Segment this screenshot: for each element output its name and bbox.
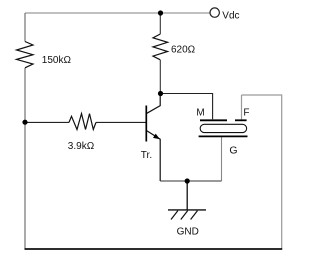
svg-text:Vdc: Vdc — [222, 11, 239, 22]
svg-text:M: M — [196, 107, 204, 118]
svg-text:F: F — [243, 107, 249, 118]
svg-text:Tr.: Tr. — [141, 150, 152, 161]
svg-text:GND: GND — [177, 227, 199, 238]
svg-text:3.9kΩ: 3.9kΩ — [68, 141, 95, 152]
svg-text:620Ω: 620Ω — [171, 45, 196, 56]
svg-text:150kΩ: 150kΩ — [42, 55, 72, 66]
svg-text:G: G — [229, 145, 237, 157]
